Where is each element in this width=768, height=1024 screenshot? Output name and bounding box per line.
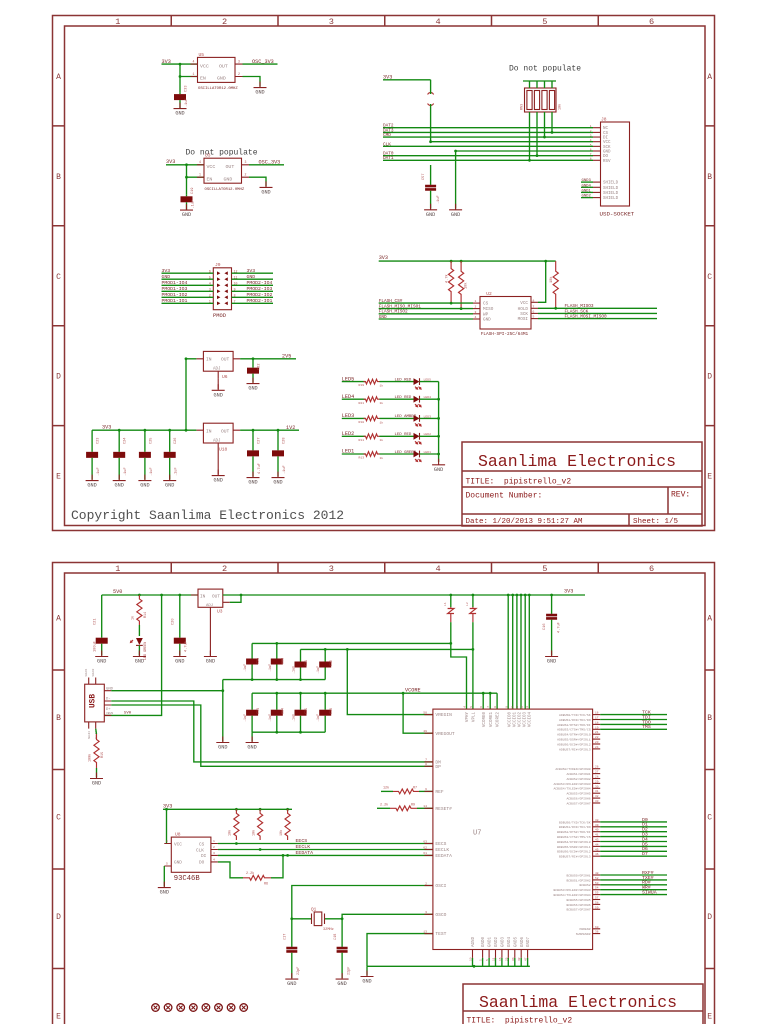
svg-text:GND: GND	[547, 659, 556, 665]
wire to ground	[455, 151, 457, 209]
wire 3V3 to U4 pin 4	[166, 164, 204, 166]
svg-text:C17: C17	[284, 934, 288, 940]
svg-text:IN: IN	[206, 357, 212, 363]
wire VPHY pin feed	[451, 643, 467, 709]
svg-text:2.2k: 2.2k	[380, 802, 388, 807]
wire GND1	[581, 191, 593, 193]
wire D7	[600, 855, 667, 857]
svg-text:U8: U8	[175, 832, 181, 838]
svg-text:VCCIO4: VCCIO4	[529, 712, 533, 728]
junction	[437, 398, 440, 401]
wire to LED	[380, 453, 414, 455]
wire DAT1	[383, 159, 593, 161]
resistor R14	[137, 595, 142, 625]
wire to ground	[366, 966, 368, 975]
wire VCCIO	[524, 595, 526, 709]
pin arrows J9 row 4	[217, 290, 228, 294]
junction	[299, 678, 302, 681]
svg-text:ACBUS6/GPIOH6: ACBUS6/GPIOH6	[566, 797, 590, 801]
svg-text:C36: C36	[330, 708, 334, 714]
svg-text:44: 44	[595, 843, 599, 846]
svg-text:U7: U7	[473, 830, 481, 838]
voltage regulator U18	[196, 423, 240, 452]
svg-text:22: 22	[595, 736, 599, 739]
svg-text:EN: EN	[207, 176, 213, 182]
svg-text:A: A	[56, 615, 61, 624]
capacitor C24	[113, 430, 125, 479]
junction	[473, 965, 476, 968]
wire DAT2	[383, 127, 593, 129]
svg-text:B: B	[707, 173, 712, 182]
wire FLASH_CS#	[379, 302, 473, 304]
svg-text:L1: L1	[443, 602, 447, 606]
wire PMOD2-IO4	[232, 284, 274, 286]
svg-text:EEDATA: EEDATA	[296, 850, 314, 856]
svg-text:GND4: GND4	[582, 184, 592, 188]
svg-text:A: A	[707, 615, 712, 624]
svg-text:J9: J9	[215, 262, 221, 268]
capacitor C33	[174, 92, 186, 108]
LED LED4	[414, 396, 422, 407]
svg-text:8: 8	[234, 294, 236, 298]
svg-text:ADJ: ADJ	[213, 439, 221, 443]
svg-text:2: 2	[222, 564, 227, 574]
svg-text:GND: GND	[214, 478, 223, 484]
svg-text:C22: C22	[258, 364, 262, 370]
wire to U4 EN pin 1	[187, 176, 205, 178]
svg-text:ACBUS5/GPIOH5: ACBUS5/GPIOH5	[566, 792, 590, 796]
svg-text:49: 49	[423, 729, 427, 733]
junction	[185, 176, 188, 179]
svg-text:3: 3	[475, 310, 477, 314]
svg-text:.1uF: .1uF	[192, 200, 196, 209]
svg-text:59: 59	[595, 906, 599, 909]
svg-text:GND2: GND2	[495, 936, 499, 947]
svg-text:GND4: GND4	[508, 936, 512, 947]
svg-text:PMOD2-IO4: PMOD2-IO4	[247, 280, 273, 286]
capacitor C26	[164, 430, 176, 479]
capacitor C22	[247, 359, 259, 383]
svg-text:3V3: 3V3	[379, 255, 388, 261]
ground	[336, 973, 349, 987]
svg-text:.1uF: .1uF	[437, 195, 441, 204]
svg-text:8: 8	[425, 762, 427, 766]
ground	[180, 204, 193, 218]
svg-text:VCC: VCC	[520, 301, 528, 306]
LED LED3	[414, 415, 422, 426]
svg-text:Saanlima Electronics: Saanlima Electronics	[479, 993, 677, 1012]
svg-text:7: 7	[234, 300, 236, 304]
svg-text:Q1: Q1	[311, 907, 317, 912]
wire VCC to 3V3 rail	[538, 261, 546, 302]
svg-text:2V5: 2V5	[282, 354, 291, 360]
wire U5 GND pin to ground	[243, 77, 261, 87]
svg-text:GND: GND	[483, 318, 491, 323]
flash memory U2	[473, 291, 538, 329]
svg-text:GND: GND	[248, 386, 257, 392]
inductor L1	[443, 595, 454, 622]
svg-text:EEDATA: EEDATA	[435, 853, 452, 859]
svg-text:GND: GND	[182, 212, 191, 218]
wire to C33	[179, 64, 181, 92]
svg-text:A: A	[56, 73, 61, 82]
svg-text:54: 54	[595, 887, 599, 890]
svg-text:VCC: VCC	[603, 141, 611, 145]
svg-text:1: 1	[213, 839, 215, 843]
svg-text:AGND: AGND	[472, 936, 476, 947]
svg-text:4: 4	[213, 857, 215, 861]
svg-text:1k: 1k	[380, 456, 384, 460]
junction	[275, 692, 278, 695]
svg-text:61: 61	[423, 851, 427, 855]
ground	[163, 475, 176, 489]
svg-text:IN: IN	[206, 429, 212, 435]
wire CLK	[383, 145, 593, 147]
wire VCORE pin feed	[482, 693, 484, 709]
svg-text:Sheet: 1/5: Sheet: 1/5	[633, 518, 679, 526]
capacitor C33	[246, 693, 258, 732]
junction	[551, 131, 554, 134]
svg-text:GND: GND	[255, 90, 264, 96]
svg-text:4.7uF: 4.7uF	[258, 463, 262, 474]
svg-text:PMOD2-IO1: PMOD2-IO1	[247, 298, 273, 304]
svg-text:C18: C18	[334, 934, 338, 940]
svg-text:C21: C21	[94, 619, 98, 625]
svg-text:VCORE0: VCORE0	[483, 712, 487, 728]
wire 3V3 to jumper	[383, 79, 431, 81]
resistor R15	[94, 734, 99, 768]
capacitor C28	[272, 430, 284, 476]
wire LED cathode to bus	[420, 453, 439, 455]
svg-text:SCK: SCK	[603, 146, 611, 150]
svg-text:SHIELD: SHIELD	[603, 182, 619, 186]
svg-text:4: 4	[436, 564, 441, 574]
wire PMOD2-IO1	[232, 302, 274, 304]
wire LED1	[342, 453, 366, 455]
svg-text:2: 2	[245, 173, 247, 177]
svg-text:BDBUS3/CTS#/TMS/CS: BDBUS3/CTS#/TMS/CS	[557, 835, 591, 839]
wire TDI	[600, 719, 667, 721]
junction	[437, 417, 440, 420]
wire GND4	[581, 186, 593, 188]
svg-text:VCORE2: VCORE2	[497, 712, 501, 728]
junction	[402, 692, 405, 695]
wire LED cathode to bus	[420, 398, 439, 400]
svg-text:33: 33	[595, 800, 599, 803]
wire RN3 pull-up	[544, 112, 546, 137]
svg-text:10: 10	[234, 282, 238, 286]
svg-text:5: 5	[470, 706, 473, 708]
svg-text:BCBUS7/GPIOH7: BCBUS7/GPIOH7	[566, 908, 590, 912]
junction	[449, 594, 452, 597]
wire GND	[162, 278, 214, 280]
wire RXF#	[600, 874, 667, 876]
svg-text:EN: EN	[200, 76, 206, 82]
junction	[286, 808, 289, 811]
svg-text:3: 3	[425, 910, 427, 914]
junction	[482, 692, 485, 695]
wire RD#	[600, 884, 667, 886]
svg-text:NC: NC	[603, 127, 609, 131]
wire USB GND	[111, 690, 223, 692]
svg-text:SHLD3: SHLD3	[88, 731, 91, 739]
LED D2 power	[131, 625, 143, 655]
svg-text:GND: GND	[165, 483, 174, 489]
junction	[489, 692, 492, 695]
svg-text:C35: C35	[305, 708, 309, 714]
svg-text:ADBUS7/RI#/GPIOL3: ADBUS7/RI#/GPIOL3	[559, 747, 591, 751]
ground	[247, 378, 260, 392]
junction	[240, 594, 243, 597]
svg-text:DO: DO	[603, 155, 609, 159]
capacitor C25	[139, 430, 151, 479]
svg-text:3V3: 3V3	[162, 268, 171, 274]
svg-text:GND1: GND1	[582, 189, 592, 193]
svg-text:LED3: LED3	[342, 413, 354, 419]
svg-text:1V2: 1V2	[286, 425, 295, 431]
svg-text:D: D	[56, 913, 61, 922]
svg-text:B: B	[56, 714, 61, 723]
svg-text:VCORE: VCORE	[405, 687, 421, 693]
capacitor C34	[271, 693, 283, 732]
junction	[472, 594, 475, 597]
svg-text:LED3: LED3	[424, 414, 432, 418]
svg-text:8: 8	[533, 298, 535, 302]
svg-text:GND5: GND5	[514, 936, 518, 947]
wire EEDATA	[218, 854, 433, 856]
wire LED ground bus	[438, 382, 440, 462]
svg-text:U6: U6	[222, 374, 228, 380]
svg-text:USB: USB	[90, 694, 98, 708]
ground	[432, 459, 445, 473]
svg-text:ADBUS5/DSR#/GPIOL1: ADBUS5/DSR#/GPIOL1	[557, 738, 591, 742]
svg-text:ADJ: ADJ	[206, 604, 213, 608]
mounting hole H3	[177, 1004, 185, 1012]
wire to C20	[179, 595, 181, 626]
svg-text:GND: GND	[379, 315, 387, 320]
svg-text:PWREN#: PWREN#	[579, 927, 590, 931]
svg-text:5V0: 5V0	[124, 712, 132, 716]
svg-text:E: E	[56, 1013, 61, 1022]
svg-text:1: 1	[115, 564, 120, 574]
svg-text:4: 4	[464, 706, 467, 708]
svg-text:LED GREEN: LED GREEN	[395, 451, 417, 455]
wire to LED	[380, 417, 414, 419]
pin arrows J9 row 6	[217, 302, 228, 306]
wire VCC to J8	[431, 141, 593, 143]
resistor R11	[364, 434, 380, 439]
svg-text:SHIELD: SHIELD	[603, 187, 619, 191]
wire 1V2 output	[240, 429, 299, 431]
ground	[138, 475, 151, 489]
wire to U5 EN pin 1	[180, 76, 198, 78]
resistor R32	[553, 261, 558, 308]
svg-text:B: B	[707, 714, 712, 723]
svg-text:GND: GND	[206, 659, 215, 665]
svg-text:VCCIO1: VCCIO1	[513, 712, 517, 728]
svg-text:OUT: OUT	[226, 164, 235, 170]
svg-text:BCBUS4/TXLED#/GPIOH4: BCBUS4/TXLED#/GPIOH4	[553, 893, 590, 897]
junction	[138, 594, 141, 597]
wire CMD	[383, 136, 593, 138]
wire VCCIO	[512, 595, 514, 709]
capacitor C17	[286, 941, 297, 978]
svg-text:REF: REF	[435, 789, 444, 795]
svg-text:ADBUS1/RXD/TDI/DO: ADBUS1/RXD/TDI/DO	[559, 718, 591, 722]
svg-text:BCBUS5/GPIOH5: BCBUS5/GPIOH5	[566, 898, 590, 902]
wire FLASH_MISO_MISO1	[379, 308, 473, 310]
svg-text:GND3: GND3	[582, 179, 592, 183]
wire LED4	[342, 398, 366, 400]
svg-text:ACBUS7/GPIOH7: ACBUS7/GPIOH7	[566, 801, 590, 805]
wire D2	[600, 831, 667, 833]
svg-text:9: 9	[234, 288, 236, 292]
LED LED1	[414, 451, 422, 462]
svg-text:1k: 1k	[380, 401, 384, 405]
wire TMS	[600, 728, 667, 730]
svg-text:3V3: 3V3	[102, 425, 111, 431]
ground	[158, 882, 171, 896]
junction	[221, 689, 224, 692]
junction	[520, 594, 523, 597]
connector J9 PMOD	[213, 262, 232, 319]
resistor R13	[364, 452, 380, 457]
capacitor C30	[271, 643, 283, 679]
wire to LED	[380, 381, 414, 383]
svg-text:2: 2	[425, 881, 427, 885]
svg-text:LED4: LED4	[342, 394, 354, 400]
svg-text:2: 2	[222, 17, 227, 27]
wire 3V3	[162, 272, 214, 274]
capacitor C21	[96, 626, 108, 655]
svg-text:RSV: RSV	[603, 160, 611, 164]
svg-text:OUT: OUT	[212, 595, 220, 600]
svg-text:8: 8	[494, 706, 497, 708]
mounting hole H1	[152, 1004, 160, 1012]
svg-text:DI: DI	[603, 137, 609, 141]
svg-text:VCC: VCC	[207, 164, 216, 170]
svg-text:VCC: VCC	[200, 63, 209, 69]
svg-text:TITLE: pipistrello_v2: TITLE: pipistrello_v2	[467, 1017, 573, 1024]
capacitor C36	[319, 693, 331, 732]
svg-text:C: C	[56, 273, 61, 282]
svg-text:13: 13	[526, 706, 529, 710]
eeprom U8 93C46B	[164, 832, 218, 873]
svg-text:17: 17	[595, 717, 599, 720]
svg-text:4.7uF: 4.7uF	[185, 641, 189, 652]
svg-text:C30: C30	[282, 658, 286, 664]
svg-text:LED5: LED5	[424, 378, 432, 382]
svg-text:CLK: CLK	[383, 142, 391, 147]
svg-text:C19: C19	[191, 188, 195, 194]
wire VCORE pin feed	[489, 693, 491, 709]
wire R6 to EEDATA	[271, 855, 283, 877]
junction	[472, 648, 475, 651]
resistor R9	[390, 806, 417, 811]
svg-text:VCORE1: VCORE1	[490, 712, 494, 728]
svg-text:FLASH-SPI-25C/64M1: FLASH-SPI-25C/64M1	[481, 332, 529, 337]
svg-text:ADBUS6/DCD#/GPIOL2: ADBUS6/DCD#/GPIOL2	[557, 742, 591, 746]
svg-text:4.7k: 4.7k	[445, 274, 450, 283]
junction	[275, 678, 278, 681]
wire VCORE pin feed	[496, 693, 498, 709]
wire OSC_3V3	[249, 164, 284, 166]
wire PMOD1-IO2	[162, 296, 214, 298]
svg-text:5: 5	[542, 564, 547, 574]
svg-text:63: 63	[423, 839, 427, 843]
resistor R18	[364, 416, 380, 421]
svg-text:VCCIO0: VCCIO0	[508, 712, 512, 728]
svg-text:6: 6	[649, 17, 654, 27]
voltage regulator U3	[191, 589, 230, 615]
svg-text:GND: GND	[224, 176, 233, 182]
wire EECLK	[218, 849, 433, 851]
svg-text:39: 39	[595, 824, 599, 827]
capacitor C27	[247, 430, 259, 476]
wire U6 IN to 3V3 rail	[186, 359, 196, 430]
svg-text:GND: GND	[175, 659, 184, 665]
svg-text:7: 7	[533, 304, 535, 308]
junction	[460, 260, 463, 263]
svg-text:EECLK: EECLK	[435, 847, 449, 853]
junction	[118, 429, 121, 432]
svg-text:GND: GND	[140, 483, 149, 489]
svg-text:6: 6	[425, 787, 427, 791]
title block sheet 2	[463, 984, 703, 1024]
svg-text:LED1: LED1	[424, 450, 432, 454]
wire 3V3 eeprom rail	[163, 808, 292, 810]
svg-text:23: 23	[595, 741, 599, 744]
chip U7 right pins	[593, 714, 601, 716]
wire RN3 pull-up	[529, 112, 531, 160]
svg-text:.1uF: .1uF	[185, 98, 189, 107]
svg-text:21: 21	[595, 731, 599, 734]
wire 3V3	[232, 272, 274, 274]
svg-text:GND: GND	[248, 480, 257, 486]
svg-text:7: 7	[487, 706, 490, 708]
svg-text:10k: 10k	[251, 830, 256, 836]
wire GND3	[581, 181, 593, 183]
svg-text:U18: U18	[219, 446, 228, 452]
wire D6	[600, 850, 667, 852]
svg-text:OSC_3V3: OSC_3V3	[259, 160, 281, 166]
svg-text:GND: GND	[426, 212, 435, 218]
ground	[212, 470, 225, 484]
svg-text:16: 16	[595, 712, 599, 715]
pin arrows J9 row 5	[217, 296, 228, 300]
svg-text:10: 10	[511, 706, 514, 710]
svg-text:DP: DP	[435, 764, 441, 770]
wire USB shield to R15	[95, 729, 98, 734]
inductor L2	[465, 595, 476, 622]
svg-text:USD-SOCKET: USD-SOCKET	[600, 211, 635, 218]
svg-text:OSCILLATOR12.0MHZ: OSCILLATOR12.0MHZ	[205, 188, 245, 192]
svg-text:GND: GND	[160, 890, 169, 896]
svg-text:PMOD2-IO3: PMOD2-IO3	[247, 286, 273, 292]
ground	[212, 384, 225, 398]
svg-text:OSCILLATOR12.0MHZ: OSCILLATOR12.0MHZ	[198, 87, 238, 91]
svg-text:GND: GND	[92, 781, 101, 787]
svg-text:C28: C28	[283, 438, 287, 444]
ground	[204, 651, 217, 665]
junction	[341, 917, 344, 920]
svg-text:GND: GND	[603, 151, 611, 155]
wire VCORE cap rail	[252, 692, 497, 694]
ground	[95, 651, 108, 665]
wire PMOD2-IO3	[232, 290, 274, 292]
svg-text:58: 58	[595, 901, 599, 904]
capacitor C16	[546, 595, 557, 655]
